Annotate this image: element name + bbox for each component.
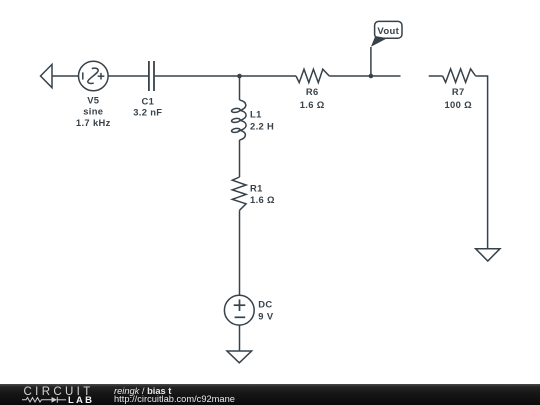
svg-text:LAB: LAB [68, 395, 94, 405]
svg-text:Vout: Vout [377, 26, 399, 37]
svg-text:100 Ω: 100 Ω [444, 99, 472, 110]
svg-text:DC: DC [258, 299, 272, 310]
svg-text:9 V: 9 V [258, 310, 274, 321]
svg-text:V5: V5 [87, 94, 99, 105]
svg-text:R1: R1 [250, 182, 263, 193]
svg-text:1.7 kHz: 1.7 kHz [76, 117, 111, 128]
svg-text:3.2 nF: 3.2 nF [133, 107, 162, 118]
svg-text:C1: C1 [141, 96, 154, 107]
svg-text:1.6 Ω: 1.6 Ω [300, 99, 325, 110]
svg-text:R6: R6 [306, 86, 319, 97]
svg-text:sine: sine [83, 106, 103, 117]
svg-text:L1: L1 [250, 109, 262, 120]
svg-text:R7: R7 [452, 86, 465, 97]
svg-text:2.2 H: 2.2 H [250, 121, 274, 132]
svg-text:1.6 Ω: 1.6 Ω [250, 194, 275, 205]
